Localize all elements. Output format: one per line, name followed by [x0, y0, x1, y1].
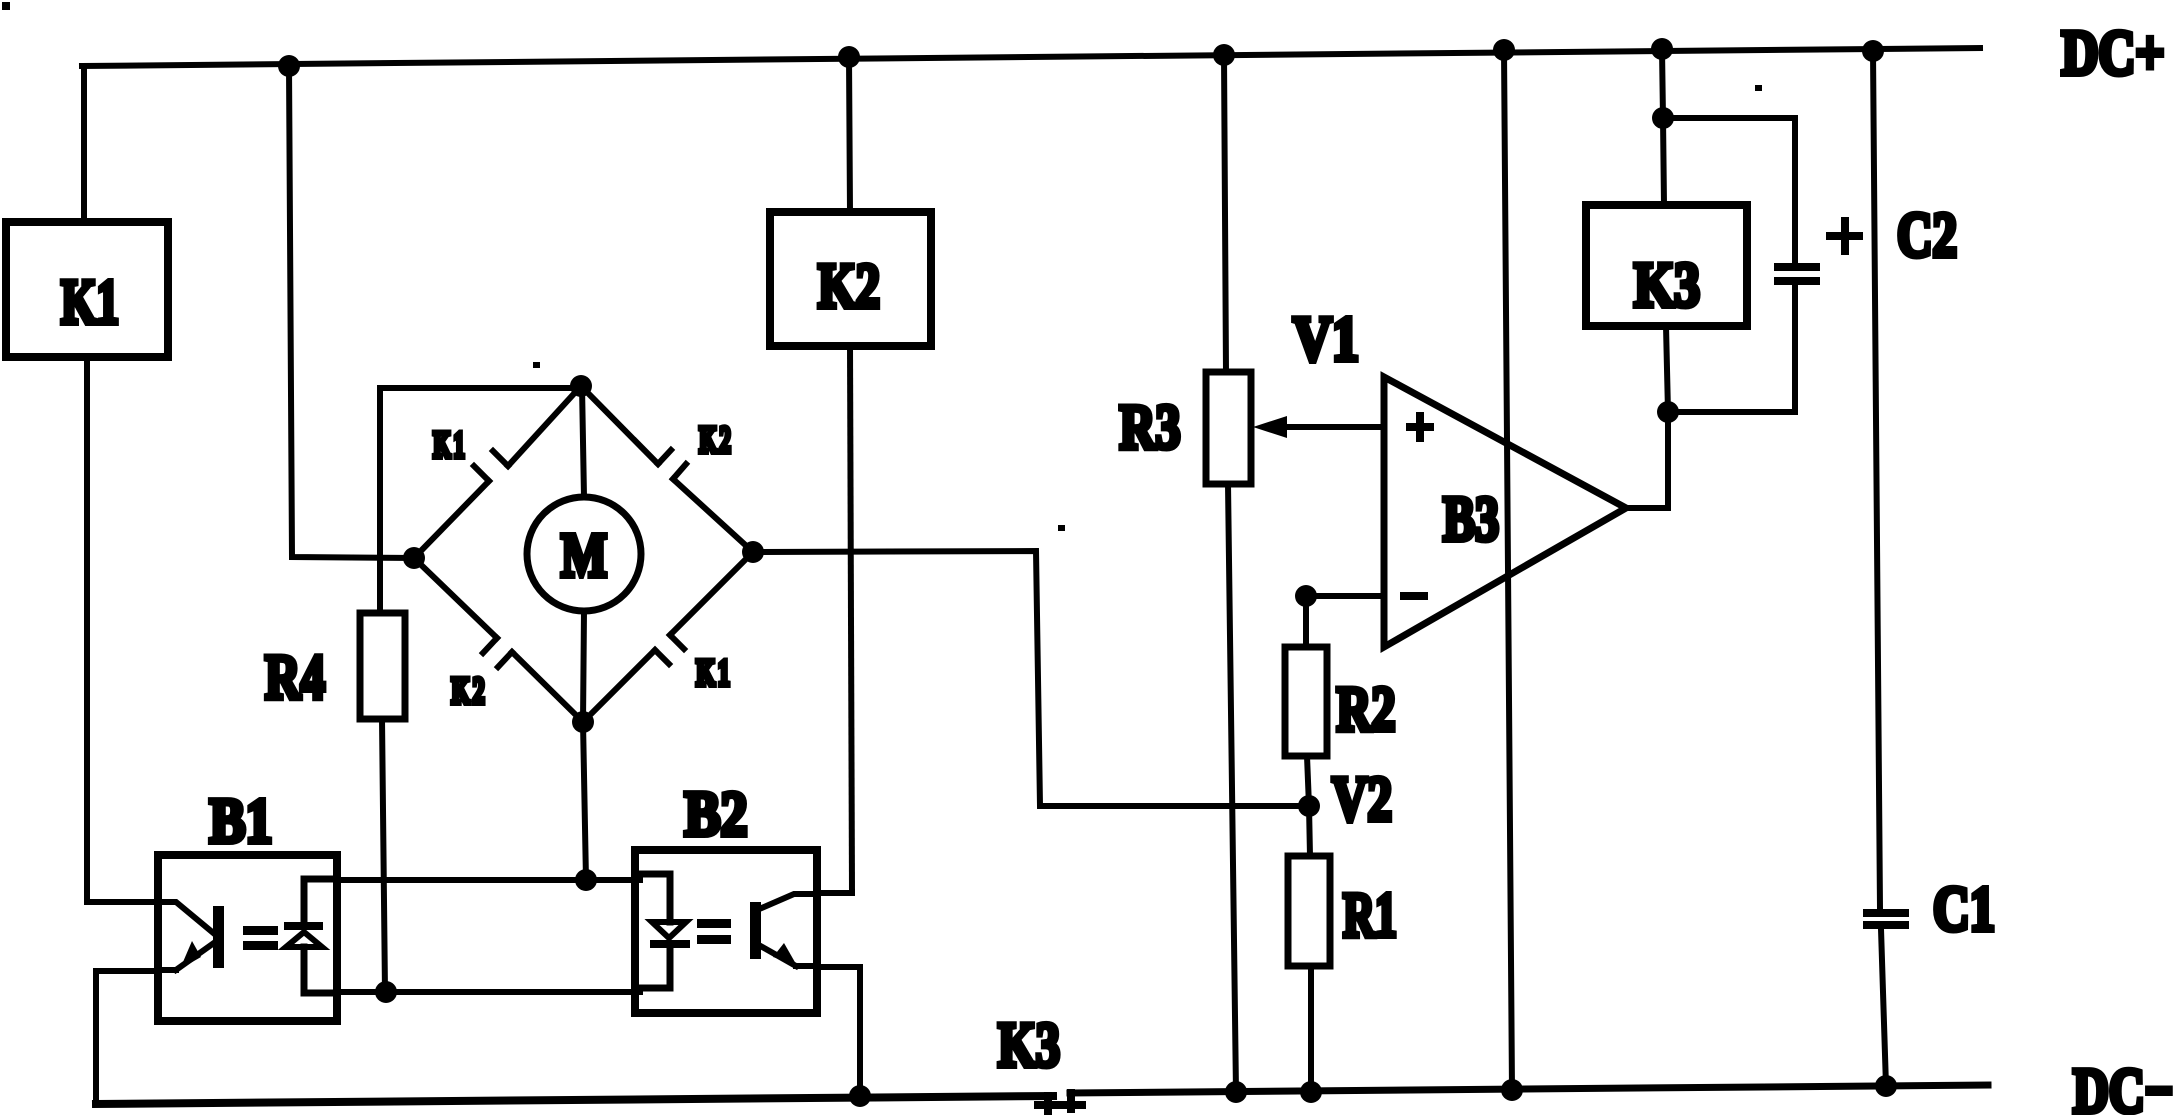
node supply line on DC- rail	[1501, 1079, 1523, 1101]
resistor R1	[1288, 856, 1330, 966]
transistor B1 phototransistor	[158, 902, 224, 970]
contact K3 on DC- rail	[1034, 1089, 1086, 1115]
motor M circle	[527, 497, 641, 611]
svg-text:B2: B2	[685, 778, 748, 849]
diode B2 LED inner box	[637, 874, 670, 922]
resistor R2	[1285, 647, 1327, 756]
svg-text:V2: V2	[1332, 764, 1392, 835]
relay coil K3 box	[1586, 205, 1747, 326]
svg-text:R1: R1	[1343, 879, 1397, 950]
wiper arrowhead	[1253, 416, 1287, 438]
wire - input to R2 top	[1306, 593, 1384, 599]
capacitor C1	[1863, 909, 1909, 929]
svg-text:K1: K1	[433, 425, 465, 466]
label + polarity C2	[1826, 217, 1863, 255]
node - input junction	[1295, 585, 1317, 607]
svg-text:K1: K1	[61, 268, 119, 338]
node junction on DC+ at x=1873	[1862, 40, 1884, 62]
svg-text:C1: C1	[1933, 875, 1995, 945]
node bridge left	[403, 547, 425, 569]
wire R1 bottom lead	[1308, 966, 1314, 1092]
node junction on DC+ at x=1504	[1493, 39, 1515, 61]
wire K3 top lead lower	[1663, 118, 1664, 205]
wire bridge right node to V2 node	[753, 551, 1309, 806]
transistor B2 phototransistor	[750, 894, 816, 966]
node wire B junction with R4	[375, 981, 397, 1003]
node bridge top	[570, 375, 592, 397]
speck noise dots	[2, 2, 10, 10]
diode B2 LED symbol	[650, 922, 690, 948]
svg-text:K2: K2	[451, 670, 484, 712]
node C1 on DC- rail	[1875, 1075, 1897, 1097]
contact K2 bridge arm top-right	[581, 386, 753, 552]
wire DC- rail left segment	[96, 1096, 1053, 1104]
wire B2 emitter to DC- rail	[817, 967, 860, 1096]
node R1 on DC- rail	[1300, 1081, 1322, 1103]
diode B1 LED symbol	[284, 922, 323, 947]
label - input	[1400, 592, 1428, 600]
node K3/C2 bottom junction	[1657, 401, 1679, 423]
optocoupler B1 box	[158, 855, 337, 1021]
wire C2 top branch	[1663, 118, 1795, 263]
coupling marks B1	[243, 926, 278, 950]
contact K2 bridge arm bottom-left	[414, 558, 583, 722]
svg-text:K3: K3	[1634, 249, 1700, 321]
contact K1 bridge arm top-left	[414, 386, 581, 558]
wire C2 bottom branch	[1668, 284, 1795, 412]
node bridge right	[742, 541, 764, 563]
wire K1 bottom lead down left side	[87, 357, 158, 902]
svg-text:C2: C2	[1897, 200, 1957, 271]
wire bridge top node to R4 top	[380, 388, 581, 613]
node junction on DC+ at x=1662	[1651, 38, 1673, 60]
node V2	[1298, 795, 1320, 817]
wire supply line through op-amp	[1504, 50, 1512, 1090]
contact K1 bridge arm bottom-right	[583, 552, 753, 722]
optocoupler B2 box	[635, 850, 817, 1013]
wire C1 bottom lead	[1881, 929, 1886, 1086]
svg-text:K1: K1	[696, 652, 730, 693]
wire motor top lead	[582, 386, 584, 497]
node emitter junction on DC-	[849, 1085, 871, 1107]
svg-text:V1: V1	[1293, 303, 1359, 374]
wire op-amp output to K3	[1626, 412, 1668, 508]
wire K3 bottom lead	[1666, 326, 1668, 412]
op-amp B3 triangle	[1384, 377, 1626, 647]
node junction on DC+ at x=289	[278, 55, 300, 77]
svg-text:R2: R2	[1337, 675, 1396, 745]
wire DC- rail right segment	[1070, 1085, 1988, 1093]
svg-text:R3: R3	[1120, 392, 1181, 462]
node bridge bottom	[572, 711, 594, 733]
wire K1 top lead from DC+ rail	[81, 66, 87, 222]
svg-text:M: M	[561, 522, 607, 591]
resistor R4	[360, 613, 405, 719]
capacitor C2	[1774, 263, 1820, 285]
node junction on DC+ at x=1224	[1213, 44, 1235, 66]
wire R3 top lead	[1224, 55, 1226, 372]
svg-text:K2: K2	[699, 420, 731, 461]
wire R3 bottom lead to DC-	[1228, 484, 1236, 1092]
relay coil K2 box	[770, 212, 931, 346]
wire B2 collector up to K2	[816, 890, 852, 896]
potentiometer R3 body	[1206, 372, 1251, 484]
wire K3 top lead upper	[1662, 49, 1663, 118]
svg-text:R4: R4	[265, 642, 325, 713]
wire from DC+ down to bridge left node	[289, 66, 414, 558]
svg-text:K2: K2	[818, 251, 880, 322]
wire motor bottom lead	[583, 611, 584, 722]
node wire A junction with bridge lead	[575, 869, 597, 891]
wire R4 bottom lead	[382, 719, 385, 992]
wire B1 emitter to DC- rail	[96, 971, 158, 1104]
svg-text:DC+: DC+	[2061, 17, 2164, 89]
node R3 on DC- rail	[1225, 1081, 1247, 1103]
wire R1 top lead	[1309, 806, 1310, 856]
node junction on DC+ at x=849	[838, 46, 860, 68]
wire R3 wiper to op-amp + input	[1282, 424, 1384, 430]
wire K2 bottom lead to B2 collector	[850, 346, 852, 893]
wire K2 top lead	[849, 57, 850, 212]
wire bridge bottom to wire A	[583, 722, 586, 880]
wire DC+ top rail	[82, 48, 1980, 66]
diode B1 LED inner box	[304, 879, 337, 922]
svg-text:B1: B1	[210, 785, 273, 856]
node K3/C2 top junction	[1652, 107, 1674, 129]
label + input	[1406, 412, 1434, 442]
coupling marks B2	[697, 919, 731, 944]
wire R2 bottom lead to V2	[1307, 756, 1309, 806]
wire C1 top lead	[1873, 51, 1880, 909]
svg-text:K3: K3	[998, 1010, 1060, 1081]
svg-text:DC−: DC−	[2073, 1056, 2173, 1115]
svg-text:B3: B3	[1443, 485, 1499, 555]
wire R2 top lead	[1303, 596, 1309, 647]
relay coil K1 box	[6, 222, 168, 357]
wire A LED top bus B1 to B2	[342, 877, 640, 883]
wire B LED bottom bus B1 to B2	[342, 989, 640, 995]
